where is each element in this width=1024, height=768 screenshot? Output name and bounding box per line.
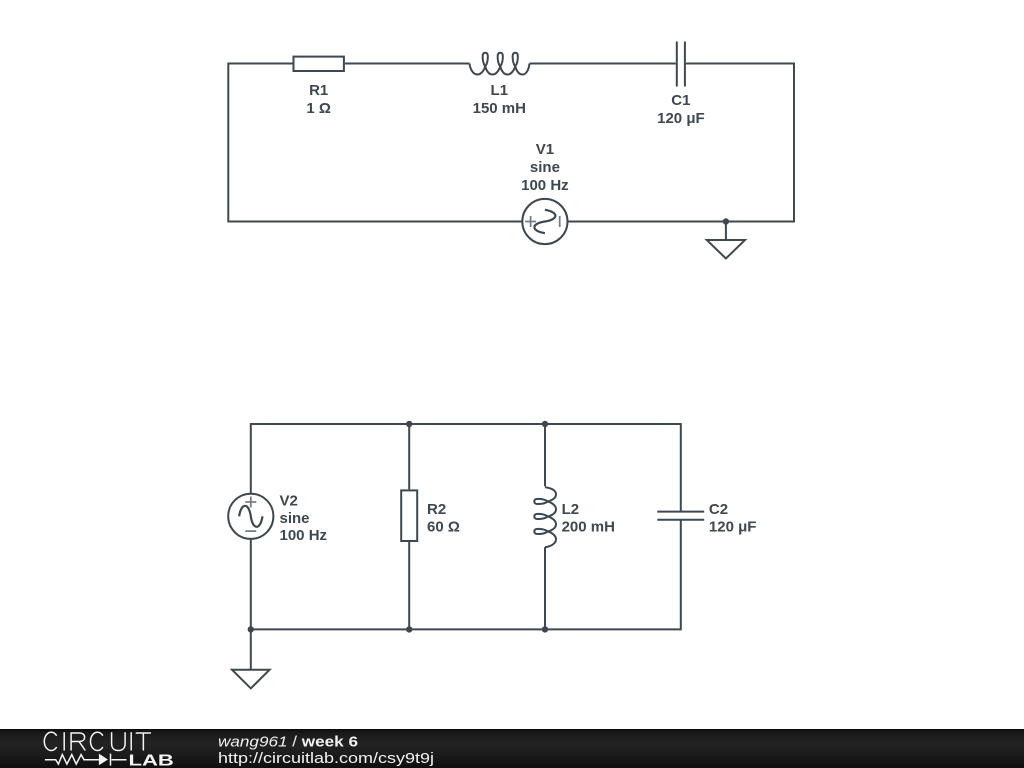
svg-text:C1: C1	[671, 92, 690, 109]
svg-text:R1: R1	[309, 82, 328, 99]
svg-text:60 Ω: 60 Ω	[427, 518, 460, 535]
svg-text:R2: R2	[427, 501, 446, 518]
svg-text:sine: sine	[280, 510, 310, 527]
svg-text:sine: sine	[530, 159, 560, 176]
svg-text:120 μF: 120 μF	[709, 518, 757, 535]
svg-text:L1: L1	[491, 82, 509, 99]
svg-text:150 mH: 150 mH	[473, 100, 526, 117]
svg-text:100 Hz: 100 Hz	[521, 177, 569, 194]
svg-text:http://circuitlab.com/csy9t9j: http://circuitlab.com/csy9t9j	[218, 750, 434, 767]
svg-text:1 Ω: 1 Ω	[306, 100, 331, 117]
svg-text:100 Hz: 100 Hz	[280, 527, 328, 544]
svg-text:200 mH: 200 mH	[562, 518, 615, 535]
svg-text:120 μF: 120 μF	[657, 110, 705, 127]
svg-text:L2: L2	[562, 501, 580, 518]
svg-text:C2: C2	[709, 501, 728, 518]
svg-text:wang961 / week 6: wang961 / week 6	[218, 733, 358, 750]
svg-text:V1: V1	[536, 141, 554, 158]
svg-text:V2: V2	[280, 493, 298, 510]
svg-text:LAB: LAB	[129, 753, 174, 768]
